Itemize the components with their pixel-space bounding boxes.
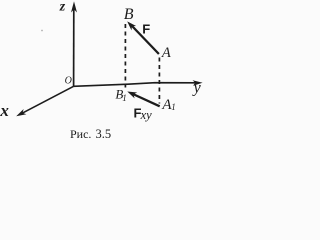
x-axis bbox=[22, 86, 74, 113]
vector F bbox=[131, 25, 159, 55]
svg-text:xy: xy bbox=[140, 108, 153, 122]
svg-text:A: A bbox=[161, 45, 171, 61]
y-axis bbox=[74, 83, 196, 87]
svg-text:x: x bbox=[0, 101, 9, 120]
vector Fxy bbox=[132, 94, 160, 107]
svg-text:O: O bbox=[65, 75, 72, 86]
svg-text:y: y bbox=[192, 80, 202, 97]
svg-text:B: B bbox=[124, 6, 134, 23]
svg-text:z: z bbox=[59, 0, 66, 14]
svg-text:F: F bbox=[142, 21, 150, 36]
svg-text:1: 1 bbox=[171, 102, 176, 112]
svg-text:3.5: 3.5 bbox=[96, 127, 112, 141]
dashed line A to A1 bbox=[158, 58, 160, 104]
speck bbox=[41, 30, 43, 32]
z-axis bbox=[73, 8, 75, 86]
dashed line B to B1 bbox=[124, 24, 126, 88]
svg-text:Рис.: Рис. bbox=[70, 127, 91, 141]
svg-text:1: 1 bbox=[122, 93, 127, 103]
